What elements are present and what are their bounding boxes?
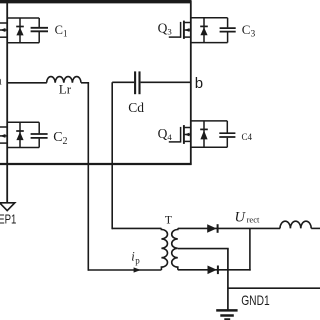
capacitor C4 top plate bbox=[219, 132, 235, 134]
rectifier diode DR2 cathode bar bbox=[217, 266, 219, 275]
switch S1 drain stub (cut off at left edge) bbox=[0, 22, 7, 24]
rectifier diode DR1 cathode bar bbox=[217, 224, 219, 233]
capacitor Cd left plate bbox=[134, 71, 136, 94]
MOSFET Q3 source stub bbox=[184, 36, 191, 38]
capacitor C2 top plate bbox=[31, 133, 48, 135]
switch S2 drain stub (cut off at left edge) bbox=[0, 126, 7, 128]
rectifier diode DR2 triangle bbox=[208, 266, 217, 275]
capacitor C3 bottom plate bbox=[220, 31, 236, 33]
wire: C1 cell box top bbox=[7, 17, 39, 19]
EP1 ground triangle bbox=[0, 203, 15, 211]
body diode D4 triangle bbox=[200, 130, 207, 139]
transformer T primary winding bbox=[161, 228, 167, 270]
capacitor C3 top plate bbox=[220, 27, 236, 29]
capacitor C1 top lead bbox=[38, 18, 40, 27]
wire primary bottom horizontal bbox=[88, 269, 161, 271]
svg-text:p: p bbox=[135, 256, 140, 266]
left bridge leg bbox=[6, 0, 8, 203]
rectifier diode DR1 triangle bbox=[207, 224, 216, 233]
wire output top right bbox=[311, 227, 320, 229]
svg-text:Lr: Lr bbox=[59, 81, 72, 96]
switch S1 body stub bbox=[0, 29, 7, 31]
switch S2 source stub bbox=[0, 142, 7, 144]
switch S1 body arrow bbox=[0, 28, 5, 32]
capacitor C4 bottom plate bbox=[219, 136, 235, 138]
capacitor C1 top plate bbox=[31, 27, 48, 29]
capacitor C2 bottom lead bbox=[38, 139, 40, 148]
body diode D1 cathode bar bbox=[16, 26, 24, 28]
MOSFET Q3 body stub bbox=[184, 29, 191, 31]
svg-text:T: T bbox=[165, 214, 172, 227]
switch S2 body stub bbox=[0, 135, 7, 137]
svg-text:rect: rect bbox=[247, 215, 260, 225]
output filter inductor coil bbox=[280, 221, 311, 228]
wire: C1 cell box bottom bbox=[7, 42, 39, 44]
wire: Q4 cell box top bbox=[191, 120, 228, 122]
capacitor Cd right plate bbox=[138, 71, 140, 94]
capacitor C4 top lead bbox=[226, 121, 228, 133]
capacitor C3 bottom lead bbox=[227, 32, 229, 42]
body diode D2 branch line bbox=[19, 122, 21, 147]
wire: Q3 cell box top bbox=[191, 17, 228, 19]
wire down to primary top bbox=[111, 82, 113, 229]
MOSFET Q4 channel bar bbox=[183, 125, 185, 144]
MOSFET Q4 drain stub bbox=[184, 127, 191, 129]
MOSFET Q4 source stub bbox=[184, 140, 191, 142]
capacitor C2 top lead bbox=[38, 122, 40, 133]
wire secondary top to output bbox=[178, 227, 280, 229]
capacitor C4 bottom lead bbox=[226, 138, 228, 148]
svg-text:C2: C2 bbox=[53, 130, 67, 147]
MOSFET Q3 drain stub bbox=[184, 22, 191, 24]
wire primary top horizontal bbox=[112, 227, 161, 229]
svg-text:GND1: GND1 bbox=[241, 293, 270, 308]
body diode D3 triangle bbox=[200, 27, 207, 35]
capacitor C1 bottom lead bbox=[38, 32, 40, 43]
ground GND1 bar 3 bbox=[224, 318, 230, 320]
MOSFET Q3 channel bar bbox=[183, 21, 185, 39]
body diode D2 cathode bar bbox=[16, 130, 24, 132]
ground GND1 bar 2 bbox=[220, 314, 234, 317]
transformer T secondary winding bbox=[172, 228, 178, 269]
MOSFET Q4 gate bar bbox=[180, 127, 182, 143]
svg-text:b: b bbox=[195, 75, 203, 92]
capacitor C3 top lead bbox=[227, 18, 229, 28]
wire: C2 cell box top bbox=[7, 121, 39, 123]
MOSFET Q3 body arrow bbox=[184, 28, 189, 32]
svg-text:EP1: EP1 bbox=[0, 213, 16, 227]
MOSFET Q3 gate lead bbox=[169, 36, 181, 38]
wire output return bbox=[228, 287, 320, 289]
inductor Lr coil bbox=[47, 77, 81, 83]
bottom DC rail bbox=[0, 163, 192, 165]
wire center tap drop / ground stem bbox=[227, 249, 229, 310]
capacitor C1 bottom plate bbox=[31, 30, 48, 32]
wire: Q4 cell box bottom bbox=[191, 146, 228, 148]
MOSFET Q4 body arrow bbox=[184, 133, 189, 137]
wire Lr to corner bbox=[81, 82, 89, 84]
MOSFET Q3 gate bar bbox=[180, 22, 182, 38]
wire node b horizontal bbox=[141, 81, 191, 83]
top DC rail bbox=[0, 0, 191, 3]
wire secondary bottom bbox=[178, 269, 251, 271]
body diode D4 cathode bar bbox=[200, 128, 208, 130]
svg-text:Q4: Q4 bbox=[158, 126, 173, 142]
switch S1 source stub bbox=[0, 36, 7, 38]
svg-text:a: a bbox=[0, 73, 2, 88]
svg-text:Q3: Q3 bbox=[158, 20, 173, 36]
body diode D2 triangle bbox=[16, 132, 23, 140]
wire: C2 cell box bottom bbox=[7, 147, 39, 149]
body diode D3 branch line bbox=[203, 18, 205, 43]
MOSFET Q4 body stub bbox=[184, 134, 191, 136]
wire center tap bbox=[178, 248, 229, 250]
svg-text:Cd: Cd bbox=[128, 100, 144, 115]
svg-text:C1: C1 bbox=[55, 23, 68, 39]
right bridge leg bbox=[190, 1, 192, 165]
wire Urect junction vertical bbox=[249, 228, 251, 270]
wire: Q3 cell box bottom bbox=[191, 42, 228, 44]
wire down to primary bottom bbox=[87, 83, 89, 271]
wire Cd left horizontal bbox=[112, 81, 134, 83]
body diode D4 branch line bbox=[203, 121, 205, 147]
body diode D1 triangle bbox=[16, 27, 23, 35]
ip current arrow bbox=[134, 267, 141, 272]
body diode D1 branch line bbox=[19, 18, 21, 43]
svg-text:C3: C3 bbox=[242, 22, 256, 40]
switch S2 body arrow bbox=[0, 134, 5, 138]
ground GND1 bar 1 bbox=[216, 309, 237, 312]
svg-text:C4: C4 bbox=[242, 132, 253, 142]
capacitor C2 bottom plate bbox=[31, 137, 48, 139]
node a wire to Lr bbox=[7, 82, 47, 84]
body diode D3 cathode bar bbox=[200, 25, 208, 27]
MOSFET Q4 gate lead bbox=[169, 141, 181, 143]
svg-text:U: U bbox=[235, 210, 247, 226]
